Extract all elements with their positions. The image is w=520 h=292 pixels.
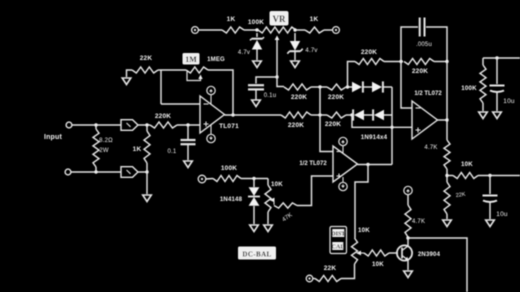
svg-text:10K: 10K [271,181,283,188]
op-amp U1 TL071 [200,96,225,133]
svg-text:4.7v: 4.7v [305,48,317,54]
trimpot VR2 wiper (tied to left end) [187,72,203,81]
wire, aux output to edge [483,57,520,59]
svg-text:TL071: TL071 [219,123,239,130]
junction, right bus crossing [390,126,393,129]
junction, aux cap [495,56,498,59]
wire, cap to ground [255,91,257,100]
wire, U3 output [438,119,448,121]
junction, row2 mid [318,113,321,116]
svg-text:10u: 10u [503,98,515,105]
svg-text:2W: 2W [99,148,109,154]
resistor R 220K row2 right [327,112,346,118]
resistor R 220K row1 left [284,84,311,90]
wire, to aux 10u [496,58,498,84]
power V+ symbol, U1 [207,86,215,94]
ground, output cap [486,220,495,227]
svg-text:220K: 220K [361,49,377,56]
wire, U2 V- stem [342,177,344,182]
wire [311,86,327,88]
svg-text:1N914x4: 1N914x4 [361,134,388,141]
wire, U2 V+ stem [342,146,344,154]
ground, emitter [404,271,413,278]
wire [95,125,97,129]
wire, row1 up to top 220K [348,62,356,88]
svg-text:1/2 TL072: 1/2 TL072 [414,91,442,97]
ground, 1N4148 [250,225,259,232]
resistor R 1K (bias rail left) [222,27,244,33]
wire, pot bottom [341,264,355,279]
wire [482,58,484,65]
junction, collector node [406,236,409,239]
wire, U1 output [225,114,282,116]
resistor R 4.7K collector [405,205,411,237]
resistor R 47K [274,203,297,208]
wire, pot to ground [267,212,269,224]
svg-text:1N4148: 1N4148 [220,197,243,203]
power V+ symbol, Q1 collector supply [404,186,412,194]
svg-text:CAL: CAL [332,245,345,251]
wire, D4 to right bus [384,114,392,116]
wire, supply to 4.7K [407,195,409,205]
resistor R 22K output shunt [444,182,450,214]
wire [434,61,447,63]
wire [244,29,258,31]
terminal, input hot [66,122,72,128]
svg-text:VR: VR [273,14,286,24]
resistor R 220K top right [404,59,434,65]
svg-text:4.7v: 4.7v [238,50,250,56]
wire [161,69,186,71]
trimpot VR bias wiper arrow [275,36,280,41]
wire, cap stub [187,125,189,139]
terminal, input return [65,169,71,175]
junction, bias node [275,75,278,78]
svg-text:4.7K: 4.7K [424,145,437,151]
resistor R 100K DC bal [213,176,241,182]
wire [138,124,150,126]
terminal, bias rail left (V+ in) [192,27,199,34]
connector tag, input return (pentagon) [121,167,138,178]
junction, 1N4148 tap [252,177,255,180]
wire, bias wiper down [276,39,278,77]
ground, DC bal pot [264,225,273,232]
trimpot VR2 1MEG inverse label box [183,53,200,65]
svg-text:1/2 TL072: 1/2 TL072 [299,161,327,167]
resistor R 10K base [364,250,389,256]
wire, Z2 to ground [294,51,296,60]
wire, U1 V- stem [210,125,212,135]
wire [384,61,403,63]
junction, row1 mid [318,85,321,88]
ground, bias cap [252,100,261,107]
capacitor C input 0.1 [181,140,196,144]
resistor R 220K top left [355,59,384,65]
diode D2 1N914 [372,81,383,92]
svg-text:0.1: 0.1 [168,149,177,155]
resistor R load 8.2ohm 2W [93,129,99,167]
svg-text:10u: 10u [496,211,508,218]
ground, input shunt [143,195,152,202]
svg-text:100K: 100K [221,165,237,172]
diode D3 1N914 [353,109,364,120]
wire [158,69,161,71]
svg-text:Input: Input [44,134,63,141]
wire [311,114,327,116]
ground, 22K [122,78,131,85]
wire, feedback node down [160,70,162,104]
junction [145,170,148,173]
ground, input cap [184,161,193,168]
svg-text:1K: 1K [227,16,236,23]
diode pair D5 D6 1N4148 (anti-parallel) [248,187,260,206]
terminal, bias rail right (V- in) [333,27,340,34]
resistor R 220K input [150,122,177,128]
power V- symbol, U2 [339,182,347,190]
svg-text:220K: 220K [325,121,341,128]
wire [241,178,268,180]
wire [313,278,315,280]
resistor R 220K row1 right [327,84,346,90]
svg-text:4.7K: 4.7K [412,219,425,225]
wire [146,125,148,131]
wire [206,178,213,181]
node, zener Z1 tap [255,28,258,31]
junction, U3 output top [445,60,448,63]
wire [447,175,453,177]
junction, row1 tap to top 220K [346,85,349,88]
capacitor C bias 0.1u [248,85,264,89]
ground, aux 100K [479,112,488,119]
op-amp U3 (1/2 TL072) [412,101,438,139]
wire between D1 D2 [362,86,372,88]
svg-text:100K: 100K [248,19,264,26]
power V+ symbol, U2 [339,137,347,145]
ground, Z1 [253,61,262,68]
wire, bias to row1 [277,77,284,87]
trimpot VR3 wiper arrow [270,198,275,203]
resistor R 1K (bias rail right) [305,27,324,33]
wire, wiper to base R [361,252,365,254]
svg-text:DC-BAL: DC-BAL [242,251,271,259]
wire, D2 to right bus [383,86,392,88]
wire, right bus (diodes to U2 output) [391,87,393,165]
capacitor C 10u aux (polarized) [490,86,505,93]
zener diode Z2 4.7v [287,41,302,54]
svg-text:10K: 10K [461,161,473,168]
wire, collector to bottom edge [408,238,467,292]
ground, aux cap [493,112,502,119]
svg-text:2N3904: 2N3904 [418,252,441,258]
wire, cap to ground [496,92,498,112]
junction, output node [445,174,448,177]
junction, load resistor top [94,123,97,126]
junction, input cap [186,123,189,126]
wire [446,214,448,219]
trimpot VR2 1MEG element [186,67,208,73]
junction, row2 tap [350,113,353,116]
wire, U1 V+ stem [210,95,212,105]
wire, to collector [407,237,409,246]
wire, bias to bypass cap [256,77,277,84]
svg-text:220K: 220K [291,94,307,101]
wire, row2 tap to U3 non-inverting input [352,115,412,127]
svg-text:1K: 1K [310,16,319,23]
wire, emitter to ground [407,260,409,270]
svg-text:220K: 220K [155,113,171,120]
junction, output cap [488,174,491,177]
node, zener Z2 tap [293,28,296,31]
trimpot VR4 10K dist cal element [352,238,358,264]
connector tag, input hot (pentagon) [121,120,138,131]
trimpot VR4 10K dist cal inverse label box [330,227,347,254]
trimpot VR3 10K DC bal [265,185,271,212]
op-amp U2 (1/2 TL072) [333,146,358,182]
terminal, DC bal supply [198,175,206,183]
wire, feedback to U1 output [208,70,233,115]
wire [346,86,352,88]
terminal, dist cal return [306,275,313,282]
power V- symbol, U1 [207,134,215,142]
svg-text:220K: 220K [288,122,304,129]
wire [198,29,222,31]
svg-text:1K: 1K [133,146,142,153]
wire, output bus down [446,62,448,141]
wire, diodes to ground [253,206,255,224]
zener diode Z1 4.7v [250,37,264,50]
resistor R 100K aux [480,65,486,103]
junction, U3 output [445,118,448,121]
wire, cap loop left [401,27,418,62]
wire [177,124,200,126]
wire, to DC bal pot [267,179,269,186]
wire [138,171,147,173]
wire [446,169,448,182]
wire, Z2 to rail [294,33,296,41]
wire [324,29,333,31]
wire, U2 non-inverting input to 47K [297,176,333,206]
wire, cap to ground [489,202,491,220]
svg-text:22K: 22K [140,55,153,62]
junction, U2 output branch [366,163,369,166]
svg-text:8.2Ω: 8.2Ω [99,138,113,144]
junction, load resistor bottom [94,170,97,173]
ground, output shunt [443,220,452,227]
wire, to 10u cap [489,176,491,195]
trimpot VR bias 100K element [258,27,296,33]
wire between D3 D4 [364,114,374,116]
svg-text:100K: 100K [461,85,477,92]
svg-text:10K: 10K [372,261,384,268]
resistor R 10K output [453,173,478,179]
wire, input return [71,171,121,173]
wire, U2 output [358,164,393,166]
wire, Z1 to ground [256,50,258,61]
diode D1 1N914 [352,81,363,92]
ground, Z2 [291,61,300,68]
wire, cap to ground [187,145,189,160]
wire, base [389,252,398,254]
junction, U3 summing node [399,60,402,63]
wire, rows mid node to U2 inverting input [320,87,333,152]
wire [253,179,255,188]
junction, 220K/1K [145,123,148,126]
wire, summing node to U3 inverting input [401,62,412,109]
wire [296,29,305,31]
wire, wiper to 47K [273,200,275,205]
resistor R 22K feedback [132,67,158,73]
wire, cap loop right [426,27,447,62]
resistor R 4.7K output [444,140,450,169]
wire, 22K to ground [127,70,133,77]
resistor R 1K input shunt [144,131,150,163]
svg-text:1MEG: 1MEG [207,57,225,63]
wire, output to edge [478,175,520,177]
junction, U1 output [231,113,234,116]
capacitor C .005u [420,18,425,37]
wire [482,103,484,111]
svg-text:0.1u: 0.1u [264,93,276,99]
wire, input hot [72,124,121,126]
svg-text:22K: 22K [324,265,337,272]
trimpot VR bias 100K inverse label box [270,11,289,26]
wire, Z1 to rail [256,33,258,37]
capacitor C 10u output (polarized) [483,196,498,203]
resistor R 22K bottom [315,276,341,282]
wire [95,167,97,172]
wire [346,114,353,116]
wire, U1 inverting input [161,103,200,105]
svg-text:DIST: DIST [331,232,345,238]
wire, to ground [146,163,148,194]
inverse label box DC BAL (trim name) [238,247,276,260]
svg-text:1M: 1M [185,55,197,64]
svg-text:.005u: .005u [416,42,432,48]
wire, U2 output down to dist cal pot [355,165,368,239]
svg-text:10K: 10K [358,227,370,234]
diode D4 1N914 [373,109,384,120]
resistor R 220K row2 left [281,112,311,118]
svg-text:220K: 220K [412,68,428,75]
trimpot VR4 wiper arrow [356,251,361,256]
svg-text:220K: 220K [328,94,344,101]
transistor Q1 2N3904 [397,245,412,260]
